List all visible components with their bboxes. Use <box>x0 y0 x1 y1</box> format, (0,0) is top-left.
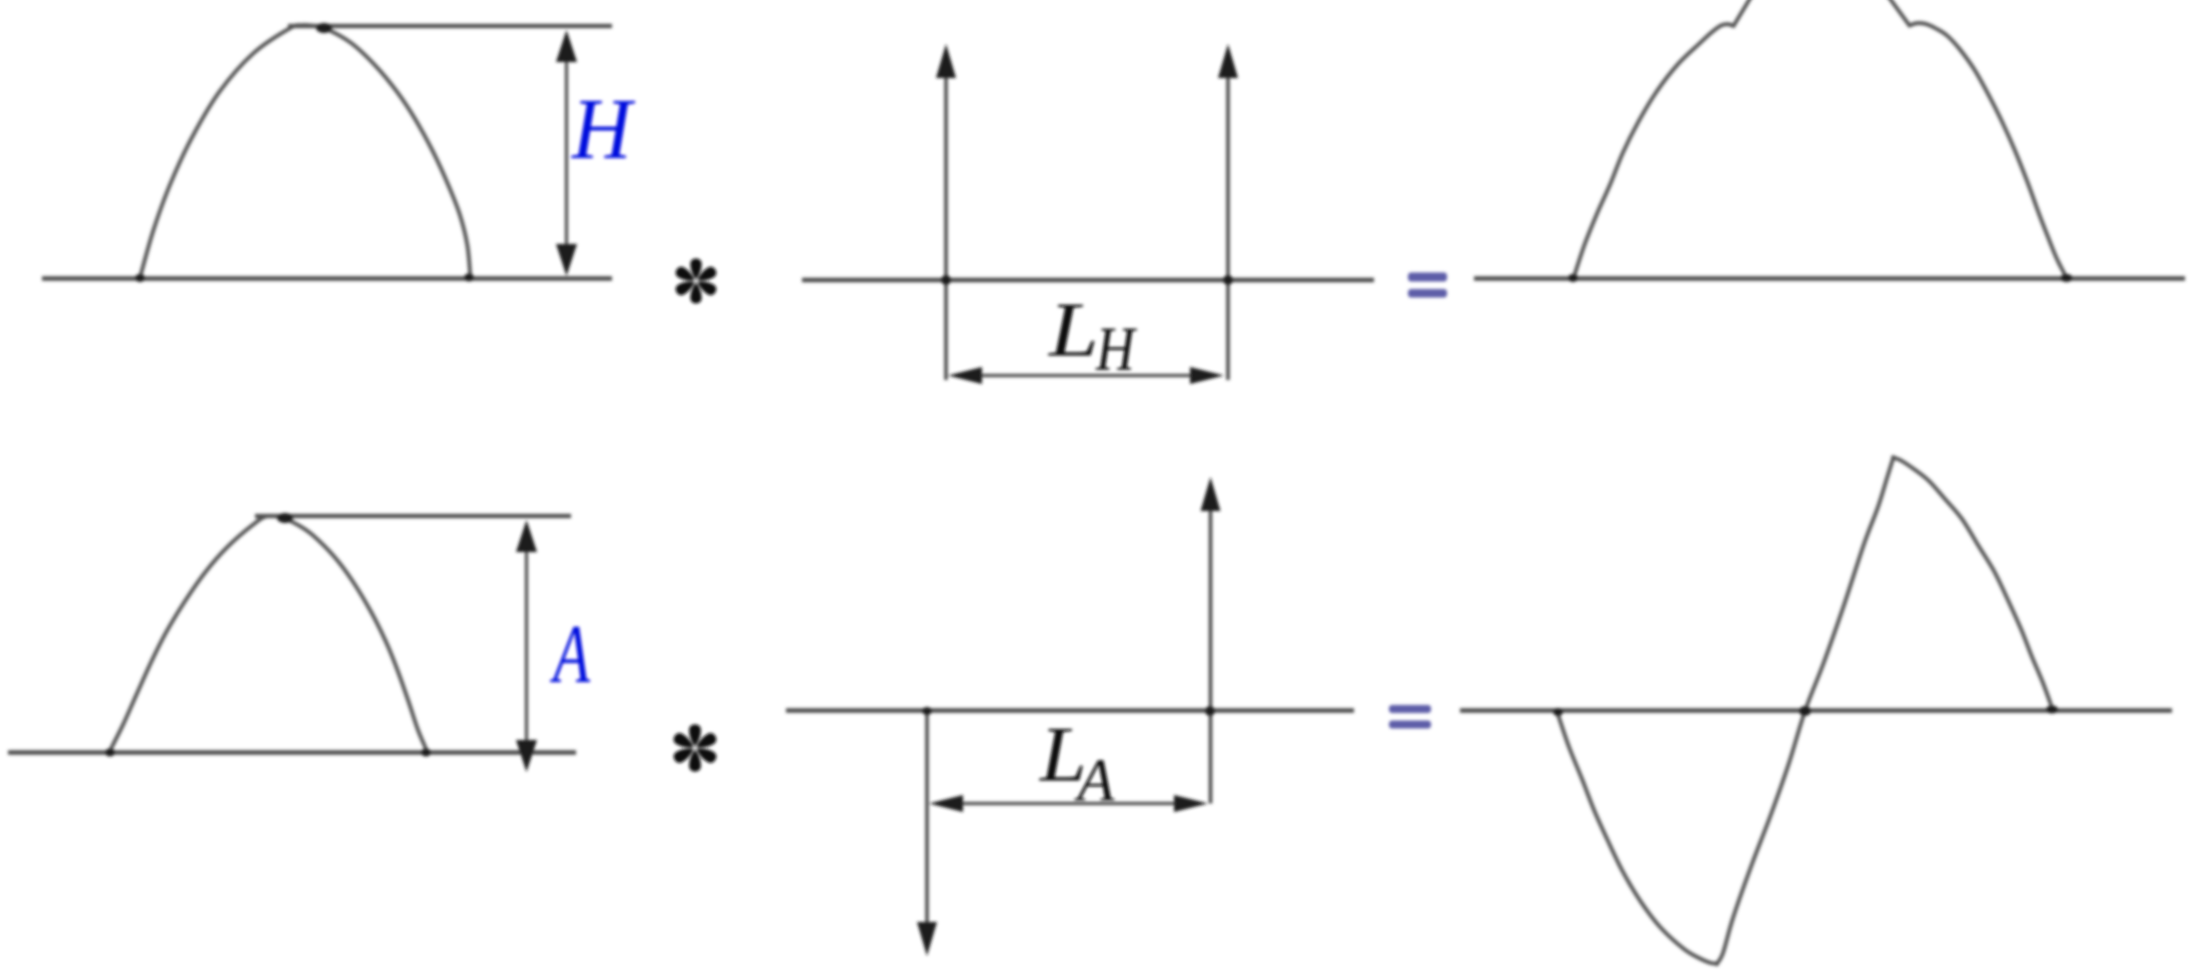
dimension arrow A bottom head <box>516 740 537 772</box>
baseline (top-middle impulse pair) <box>802 278 1374 282</box>
dimension arrow L_H shaft <box>975 374 1195 377</box>
equals sign (bottom) <box>1389 705 1431 729</box>
junction dot <box>2061 274 2073 282</box>
dimension arrow L_A right head <box>1174 795 1208 812</box>
junction dot <box>1799 706 1811 716</box>
dimension arrow L_H left head <box>948 367 982 384</box>
junction dot <box>105 749 115 757</box>
baseline (bottom-right result) <box>1460 708 2172 712</box>
equals sign (top) <box>1408 273 1447 298</box>
convolution asterisk (bottom) <box>672 724 719 771</box>
baseline (bottom-left pulse) <box>8 750 576 754</box>
peak reference line (bottom-left) <box>255 514 571 518</box>
dimension arrow L_H right head <box>1190 367 1224 384</box>
result waveform (top-right), left arc <box>1574 0 1752 278</box>
peak reference line (top-left) <box>288 24 612 28</box>
positive impulse arrow shaft (bottom-middle right) <box>1209 505 1213 804</box>
negative impulse arrow shaft (bottom-middle left) <box>925 711 929 925</box>
result waveform (bottom-right) <box>1557 457 2053 964</box>
negative impulse arrow head (pointing down) <box>917 922 937 956</box>
impulse arrow shaft (top-middle left) <box>944 70 948 380</box>
junction dot <box>2046 706 2058 714</box>
dimension arrow A top head <box>516 520 537 552</box>
svg-text:A: A <box>1074 748 1116 815</box>
dimension arrow H shaft <box>565 44 568 262</box>
junction dot <box>1568 274 1578 282</box>
svg-text:L: L <box>1048 288 1099 373</box>
junction dot <box>277 513 293 523</box>
junction dot <box>1553 708 1563 716</box>
svg-text:H: H <box>1095 314 1137 384</box>
baseline (top-right result) <box>1474 276 2185 280</box>
junction dot <box>464 274 474 282</box>
dimension arrow H top head <box>556 30 577 62</box>
junction dot <box>1223 275 1233 285</box>
junction dot <box>1205 706 1215 716</box>
svg-text:H: H <box>571 81 636 178</box>
junction dot <box>316 23 332 33</box>
dimension arrow H bottom head <box>556 244 577 276</box>
convolution asterisk (top) <box>674 259 718 304</box>
junction dot <box>941 275 951 285</box>
svg-text:A: A <box>550 607 590 700</box>
dimension arrow L_A shaft <box>955 802 1180 805</box>
junction dot <box>922 707 932 715</box>
baseline (bottom-middle impulse pair) <box>786 708 1354 712</box>
pulse hump (top-left) <box>140 25 470 277</box>
impulse arrow shaft (top-middle right) <box>1226 70 1230 380</box>
junction dot <box>135 274 145 282</box>
result waveform (top-right), right arc <box>1888 0 2067 278</box>
dimension arrow A shaft <box>525 534 528 752</box>
impulse arrow head (top-middle right) <box>1218 44 1238 78</box>
dimension arrow L_A left head <box>929 795 963 812</box>
junction dot <box>421 749 431 757</box>
baseline (top-left pulse) <box>42 276 612 280</box>
positive impulse arrow head <box>1201 477 1221 511</box>
pulse hump (bottom-left) <box>109 516 428 753</box>
impulse arrow head (top-middle left) <box>936 44 956 78</box>
